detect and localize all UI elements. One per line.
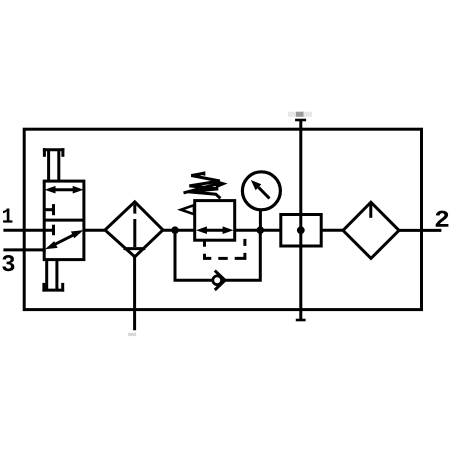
valve V1 top push actuator — [43, 148, 65, 181]
valve V1 bottom position diagonal flow arrow (double headed) — [45, 230, 84, 249]
bottom port plug T — [296, 319, 306, 322]
valve V1 top position flow arrow (double headed) — [45, 186, 84, 194]
check valve CV1 seat — [215, 271, 225, 290]
regulator R1 body — [195, 201, 235, 241]
on-off valve V1 body — [44, 181, 84, 260]
top port plug T — [295, 119, 306, 122]
valve V1 top position blocked port T — [44, 204, 54, 215]
wire: port 1 line into valve (ends at blocked T) — [3, 229, 54, 232]
valve V1 bottom position blocked port T (port 1) — [52, 225, 55, 236]
pressure gauge G1 dial — [242, 172, 280, 210]
node: gauge junction dot — [257, 226, 265, 234]
regulator R1 adjustment arrow — [184, 171, 228, 193]
drain valve remnant (gray) — [128, 333, 136, 336]
regulator R1 pilot line (dashed) — [205, 239, 245, 259]
port 1 label — [3, 209, 12, 223]
wire: valve output to filter — [84, 229, 106, 232]
bypass line with check valve — [175, 230, 260, 280]
branch module vertical line — [299, 121, 302, 321]
check valve CV1 ball — [213, 276, 222, 285]
branch module B1 (distributor block) — [281, 215, 321, 247]
valve V1 bottom push actuator — [42, 260, 64, 292]
wire: port 3 line to valve — [3, 248, 45, 251]
wire: lubricator to port 2 — [399, 229, 441, 232]
regulator R1 internal flow arrows — [196, 226, 234, 234]
port 2 label — [436, 211, 449, 227]
regulator R1 adjustment spring (zigzag) — [188, 173, 221, 198]
lubricator L1 (diamond) — [343, 202, 399, 258]
top plug remnant (gray) — [288, 112, 312, 117]
regulator R1 relief vent triangle — [181, 205, 194, 214]
node: bypass tee (junction dot) — [171, 226, 179, 234]
enclosure frame (unit boundary) — [24, 129, 421, 309]
wire: regulator to branch module — [235, 229, 281, 232]
wire: filter to regulator — [163, 229, 195, 232]
port 3 label — [2, 255, 14, 271]
node: branch junction dot — [297, 226, 305, 234]
wire: branch module to lubricator — [321, 229, 344, 232]
filter F1 with water separator (diamond) — [105, 202, 163, 257]
pressure gauge G1 stem — [259, 210, 262, 230]
filter F1 condensate drain line — [133, 257, 136, 331]
pressure gauge G1 needle — [251, 180, 270, 199]
